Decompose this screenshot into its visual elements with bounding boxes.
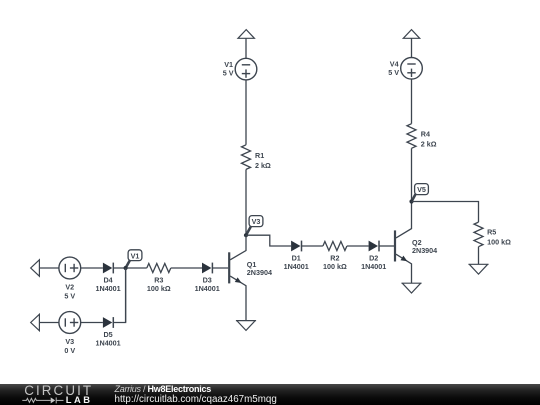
svg-text:R1: R1	[255, 151, 264, 160]
node arrow left of V2	[31, 260, 40, 276]
svg-text:5 V: 5 V	[64, 291, 75, 300]
wire	[347, 245, 369, 247]
wire	[113, 267, 147, 269]
svg-text:5 V: 5 V	[223, 69, 234, 78]
wire	[302, 245, 323, 247]
node V3 label	[244, 216, 263, 238]
wire	[40, 322, 59, 324]
wire	[379, 245, 395, 247]
svg-text:100 kΩ: 100 kΩ	[323, 262, 347, 271]
svg-text:V1: V1	[131, 251, 140, 260]
wire	[246, 235, 291, 246]
voltage source V1	[223, 58, 257, 80]
svg-text:V3: V3	[65, 337, 74, 346]
wire	[113, 268, 125, 323]
wire	[81, 267, 103, 269]
node V1 label	[124, 250, 142, 270]
wire	[412, 202, 479, 223]
resistor R3	[147, 264, 171, 293]
svg-text:1N4001: 1N4001	[96, 338, 121, 347]
resistor R5	[474, 222, 511, 247]
wire	[171, 267, 202, 269]
voltage source V3	[59, 312, 81, 355]
wire	[411, 79, 413, 124]
resistor R1	[242, 145, 271, 170]
wire	[245, 80, 247, 145]
resistor R4	[407, 124, 437, 149]
wire	[125, 268, 127, 323]
diode D1	[284, 241, 309, 271]
node arrow top of V1	[238, 30, 254, 39]
CircuitLab logo	[0, 384, 110, 405]
footer title text	[115, 384, 277, 405]
footer bar	[0, 384, 540, 405]
wire	[245, 38, 247, 58]
wire	[478, 247, 480, 264]
transistor Q1	[229, 235, 272, 320]
svg-text:V5: V5	[417, 185, 426, 194]
diode D3	[195, 263, 220, 293]
voltage source V2	[59, 257, 81, 300]
svg-text:100 kΩ: 100 kΩ	[487, 238, 511, 247]
wire	[40, 267, 59, 269]
node arrow top of V4	[403, 30, 419, 39]
ground	[236, 321, 256, 331]
diode D2	[361, 241, 386, 271]
svg-text:1N4001: 1N4001	[96, 284, 121, 293]
resistor R2	[323, 242, 347, 271]
svg-text:1N4001: 1N4001	[284, 262, 309, 271]
diode D5	[96, 317, 121, 347]
svg-text:2 kΩ: 2 kΩ	[421, 139, 437, 148]
transistor Q2	[395, 202, 437, 284]
wire	[245, 169, 247, 235]
svg-text:R5: R5	[487, 228, 496, 237]
svg-text:2N3904: 2N3904	[412, 246, 437, 255]
wire	[212, 267, 228, 269]
ground	[468, 264, 488, 274]
svg-text:1N4001: 1N4001	[195, 284, 220, 293]
voltage source V4	[388, 58, 422, 80]
wire	[411, 38, 413, 57]
svg-text:2 kΩ: 2 kΩ	[255, 161, 271, 170]
svg-text:V3: V3	[252, 217, 261, 226]
ground	[401, 283, 421, 293]
node arrow left of V3	[31, 314, 40, 330]
wire	[81, 322, 103, 324]
svg-text:V2: V2	[65, 283, 74, 292]
node V5 label	[409, 184, 428, 204]
diode D4	[96, 263, 121, 293]
svg-text:5 V: 5 V	[388, 68, 399, 77]
svg-text:100 kΩ: 100 kΩ	[147, 284, 171, 293]
svg-text:R4: R4	[421, 129, 430, 138]
svg-text:LAB: LAB	[66, 394, 93, 405]
svg-text:0 V: 0 V	[64, 346, 75, 355]
wire	[411, 148, 413, 201]
svg-text:2N3904: 2N3904	[247, 268, 272, 277]
svg-text:1N4001: 1N4001	[361, 262, 386, 271]
